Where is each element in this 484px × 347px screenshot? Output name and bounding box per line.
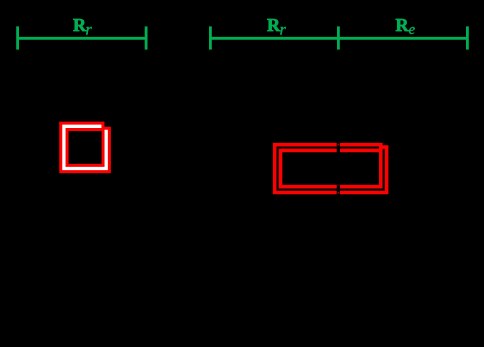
svg-text:R: R xyxy=(396,15,410,35)
node centerline dash top xyxy=(337,142,340,153)
wire dimension line R_r left xyxy=(17,26,147,49)
label R_r left xyxy=(73,15,93,38)
node middle tick xyxy=(337,26,340,49)
rectangle (red double-line, black core) xyxy=(278,148,384,190)
label R_r right xyxy=(267,15,287,38)
svg-text:r: r xyxy=(86,21,93,38)
node left tick xyxy=(209,26,212,49)
square (red double-line, white core) xyxy=(64,126,106,168)
node left tick xyxy=(16,26,19,49)
node right tick xyxy=(145,26,148,49)
node right tick xyxy=(466,26,469,49)
wire dimension line R_r / R_e right xyxy=(210,26,469,49)
svg-text:r: r xyxy=(280,21,287,38)
svg-text:e: e xyxy=(409,22,416,38)
label R_e xyxy=(396,15,416,38)
node centerline dash bottom xyxy=(337,185,340,195)
